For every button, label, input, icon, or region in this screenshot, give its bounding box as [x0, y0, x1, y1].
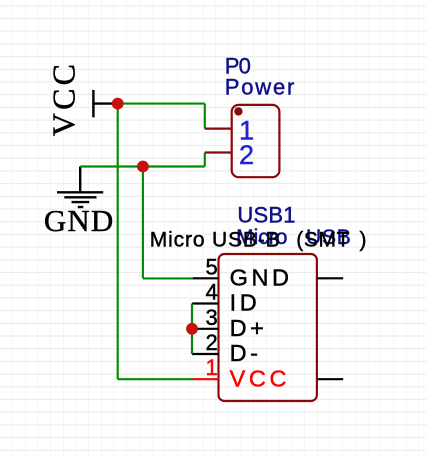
svg-text:GND: GND — [230, 264, 293, 290]
wire VCC bottom horizontal to USB pin 1 — [118, 378, 194, 380]
USB1 pin 1 (highlighted) — [193, 378, 219, 380]
USB1 body — [219, 254, 317, 401]
USB1 shield pin bottom right — [317, 378, 343, 380]
junction VCC node — [112, 98, 124, 110]
wire GND down vertical — [142, 167, 144, 279]
ground — [57, 167, 103, 208]
svg-text:4: 4 — [205, 280, 217, 305]
svg-text:Micro USB-B(SMT): Micro USB-B(SMT) — [150, 229, 367, 252]
svg-text:VCC: VCC — [46, 61, 82, 136]
USB1 pin 4 — [192, 302, 219, 304]
P0 pin 1 — [205, 128, 232, 130]
wire GND horizontal to USB pin 5 — [143, 277, 194, 279]
svg-text:D+: D+ — [230, 315, 268, 341]
svg-text:Power: Power — [225, 74, 296, 99]
wire VCC down to P0 pin 1 — [204, 104, 206, 129]
wire GND horizontal — [80, 165, 205, 167]
svg-text:2: 2 — [239, 140, 254, 170]
USB1 pin 2 — [192, 353, 219, 355]
connector P0 body — [232, 105, 280, 177]
svg-text:VCC: VCC — [230, 366, 290, 392]
P0 pin 2 — [205, 151, 232, 153]
junction GND node — [137, 161, 149, 173]
svg-text:5: 5 — [205, 254, 217, 279]
svg-text:GND: GND — [44, 203, 114, 238]
USB1 pin 3 — [192, 328, 219, 330]
svg-text:1: 1 — [205, 355, 217, 380]
svg-text:2: 2 — [205, 330, 217, 355]
connector P0 polarity dot — [234, 107, 242, 115]
USB1 shield pin top right — [317, 277, 343, 279]
svg-text:3: 3 — [205, 305, 217, 330]
wire VCC horizontal to P0 — [118, 103, 205, 105]
wire VCC long vertical — [117, 104, 119, 380]
wire bracket ID/D+/D- — [191, 304, 193, 355]
svg-text:ID: ID — [230, 290, 261, 316]
svg-text:USB1: USB1 — [237, 202, 295, 227]
USB1 pin 5 — [193, 277, 219, 279]
junction D+ node — [186, 323, 198, 335]
power flag VCC — [92, 90, 117, 118]
svg-text:D-: D- — [230, 340, 262, 366]
wire GND up to P0 pin 2 — [204, 153, 206, 167]
